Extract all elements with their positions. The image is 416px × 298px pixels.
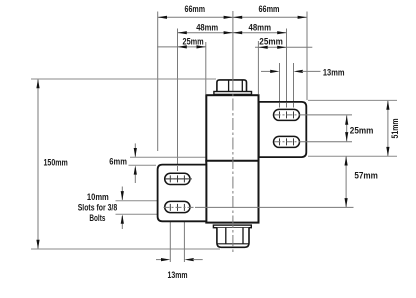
dimension 13mm bottom (outside arrows) <box>169 213 171 262</box>
dimension 25mm right <box>255 46 312 48</box>
dimension 66mm left <box>158 16 233 18</box>
extension continuation right slot center inside plate <box>286 103 288 108</box>
left plate slot 2 bolt cross ticks <box>169 204 171 211</box>
extension line left plate left edge (66mm left) <box>157 12 159 152</box>
extension line slot2 bottom (10mm) <box>116 213 159 215</box>
extension line right plate bottom (51mm/57mm) <box>308 155 397 157</box>
dimension 48mm left <box>178 32 233 34</box>
dimension 25mm left <box>157 46 206 48</box>
extension line right plate top (51mm) <box>308 99 397 101</box>
slot centerline left plate slot1 <box>166 178 193 180</box>
hex nut chamfer line <box>217 243 249 245</box>
svg-text:Bolts: Bolts <box>89 213 105 224</box>
extension line right plate bottom (6mm top) <box>130 156 258 158</box>
extension line body right edge <box>257 41 259 94</box>
hex nut bottom <box>217 228 249 248</box>
dimension 150mm vertical <box>37 79 39 249</box>
bottom washer <box>213 225 251 228</box>
extension line right slot center (48mm right) <box>286 29 288 116</box>
svg-text:13mm: 13mm <box>323 67 345 78</box>
svg-text:51mm: 51mm <box>390 119 401 139</box>
slot centerline right plate slot1 extended <box>275 114 302 116</box>
svg-text:57mm: 57mm <box>354 171 378 182</box>
svg-text:150mm: 150mm <box>44 158 68 169</box>
centerline vertical axis dash-dot through part <box>232 79 234 254</box>
left plate slot 1 <box>165 173 190 184</box>
svg-text:25mm: 25mm <box>259 36 283 47</box>
svg-text:48mm: 48mm <box>249 23 272 34</box>
hinge knuckle split line <box>205 160 259 162</box>
right plate slot 2 bolt cross ticks <box>279 138 281 145</box>
dimension 48mm right <box>233 32 287 34</box>
hex nut facet lines <box>225 228 227 244</box>
svg-text:6mm: 6mm <box>109 156 127 167</box>
extension line right slot bolt position right <box>293 63 295 115</box>
hinge body <box>206 95 258 222</box>
extension line bolt top (150mm) <box>31 78 216 80</box>
svg-text:66mm: 66mm <box>185 4 206 15</box>
hex bolt facet lines <box>228 80 230 91</box>
extension line slot2 top (10mm) <box>116 200 159 202</box>
svg-text:25mm: 25mm <box>350 125 374 136</box>
extension line left plate top (6mm bottom) <box>129 164 157 166</box>
dimension 57mm vertical <box>345 156 347 207</box>
hex bolt head top <box>217 80 247 92</box>
svg-text:13mm: 13mm <box>168 270 188 281</box>
extension continuation right slot bolt left inside plate <box>279 103 281 108</box>
slot centerline right plate slot2 extended <box>275 141 302 143</box>
right plate slot 1 bolt cross ticks <box>279 111 281 118</box>
dimension 6mm (outside arrows) <box>134 143 136 156</box>
extension line left plate slot2 centerline extended (57mm bottom) <box>164 206 196 208</box>
extension continuation right slot bolt right inside plate <box>293 103 295 108</box>
dimension 66mm right <box>233 16 307 18</box>
right plate slot 1 <box>274 109 300 120</box>
left plate slot 2 <box>165 201 190 212</box>
left mounting plate <box>158 165 207 222</box>
right plate slot 2 <box>274 136 300 147</box>
dimension 51mm vertical <box>387 100 389 156</box>
svg-text:Slots for 3/8: Slots for 3/8 <box>78 202 118 213</box>
left plate slot 1 centerline inside <box>166 178 189 180</box>
dimension 10mm slot height (outside arrows) <box>121 187 123 200</box>
top washer <box>214 92 252 95</box>
svg-text:48mm: 48mm <box>196 23 218 34</box>
centerline vertical axis <box>232 11 234 79</box>
extension line left slot center (48mm left) <box>177 29 179 177</box>
dimension 13mm top right (outside arrows) <box>261 70 272 72</box>
svg-text:25mm: 25mm <box>183 36 204 47</box>
extension line right slot bolt position left <box>279 63 281 115</box>
right mounting plate <box>259 102 307 157</box>
extension line right plate right edge (66mm right) <box>306 12 308 101</box>
extension continuation left slot center inside plate <box>177 166 179 171</box>
svg-text:66mm: 66mm <box>259 4 280 15</box>
extension line body left edge <box>205 42 207 94</box>
extension line nut bottom (150mm) <box>31 248 220 250</box>
dimension 25mm right side vertical <box>346 115 348 141</box>
left plate slot 1 bolt cross ticks <box>169 175 171 182</box>
